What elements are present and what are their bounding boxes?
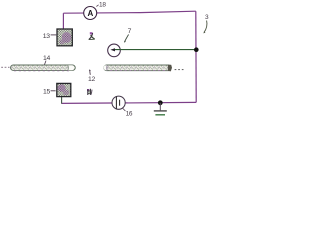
box 15 (electrode block) <box>57 83 71 96</box>
label 12 with up arrow <box>88 69 95 83</box>
label 14 with leader <box>43 55 50 65</box>
svg-text:18: 18 <box>99 2 106 9</box>
wire top horizontal from node above 13 to top-right corner <box>63 11 195 13</box>
box 13 (electrode block) <box>57 29 72 46</box>
label 3 with leader <box>203 14 209 34</box>
label 18 <box>96 2 106 9</box>
label 13 <box>43 33 57 40</box>
svg-text:12: 12 <box>88 76 95 83</box>
svg-text:A: A <box>87 9 93 18</box>
svg-text:16: 16 <box>126 110 133 117</box>
wire vertical stub from top wire down to box 13 <box>62 13 64 29</box>
dashes continuing rod to left edge <box>1 67 9 68</box>
label 15 <box>43 88 56 95</box>
wire bottom horizontal <box>62 102 197 103</box>
arrowhead at circle 7 center <box>110 48 115 51</box>
label 16 with leader <box>122 108 133 117</box>
wire green from circle 7 to right junction <box>115 49 197 51</box>
circle 7 (reference electrode with arrow) <box>108 44 121 57</box>
svg-text:14: 14 <box>43 55 50 62</box>
ammeter U18 <box>84 7 97 20</box>
junction node on right wire <box>194 47 199 52</box>
wire right vertical <box>195 11 197 102</box>
ground symbol <box>154 103 167 115</box>
label 7 with leader <box>124 28 131 43</box>
character next to box 15 <box>87 89 92 95</box>
ground node dot <box>158 100 163 105</box>
wire stub from box 15 down to bottom wire <box>61 96 63 103</box>
svg-text:13: 13 <box>43 33 50 40</box>
svg-text:15: 15 <box>43 88 50 95</box>
rod right (electrode rod continuing) <box>104 65 172 72</box>
rod 14 left (electrode rod) <box>11 65 76 71</box>
power source 16 <box>112 96 125 109</box>
character (反) next to box 13 <box>89 32 95 39</box>
svg-text:3: 3 <box>205 14 209 21</box>
dots continuing rod to right <box>175 69 184 70</box>
svg-text:7: 7 <box>128 28 132 35</box>
